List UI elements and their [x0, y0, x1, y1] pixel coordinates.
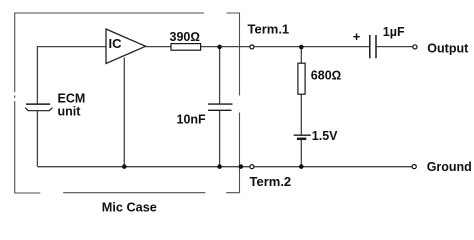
svg-text:unit: unit — [58, 105, 82, 119]
wire: top rail from ECM to IC input — [37, 47, 106, 104]
wire: 680 resistor top lead — [300, 47, 302, 63]
wire: 10nF bottom lead — [219, 110, 221, 166]
resistor 390Ω — [170, 30, 201, 50]
Term.2 case bracket — [226, 113, 239, 193]
node: junction 680Ω top — [299, 45, 304, 50]
capacitor 10nF — [177, 104, 233, 127]
capacitor C 1uF (electrolytic, + on left) — [353, 25, 405, 58]
terminal Ground — [412, 160, 472, 174]
wire: 1uF capacitor to Output terminal — [377, 46, 413, 48]
terminal Term.1 — [248, 21, 290, 49]
node: junction Term.2 bracket on rail — [239, 164, 244, 169]
wire: 680 resistor to battery — [300, 94, 302, 134]
svg-text:10nF: 10nF — [177, 113, 207, 127]
resistor 680Ω — [298, 63, 341, 94]
svg-text:Term.1: Term.1 — [248, 21, 290, 36]
op-amp IC U1 — [106, 29, 146, 64]
terminal Output — [413, 41, 469, 55]
node: junction battery bottom on rail — [299, 164, 304, 169]
ECM unit microphone element — [25, 92, 85, 119]
battery 1.5V — [294, 129, 339, 143]
node: junction 10nF bottom on rail — [217, 164, 222, 169]
wire: 10nF top lead — [219, 47, 221, 104]
svg-text:390Ω: 390Ω — [170, 30, 200, 44]
svg-text:IC: IC — [109, 36, 123, 51]
Term.1 case bracket — [227, 13, 240, 96]
wire: resistor to 1uF capacitor (through Term.1) — [201, 46, 370, 48]
svg-text:+: + — [353, 29, 361, 44]
svg-text:1.5V: 1.5V — [312, 129, 338, 143]
node: junction 390Ω/10nF — [217, 45, 222, 50]
terminal Term.2 — [250, 165, 292, 189]
svg-text:Mic Case: Mic Case — [102, 201, 157, 215]
svg-text:Term.2: Term.2 — [250, 174, 292, 189]
wire: ECM bottom to bottom rail — [36, 111, 38, 167]
wire: bottom rail (ground rail) — [37, 166, 412, 168]
wire: battery to bottom rail — [300, 140, 302, 167]
svg-text:Ground: Ground — [427, 160, 472, 174]
svg-text:680Ω: 680Ω — [311, 68, 341, 82]
svg-text:1µF: 1µF — [383, 25, 405, 39]
wire: IC output to 390 resistor — [146, 46, 171, 48]
mic case dashed outline (top + left dashes) — [15, 13, 206, 193]
node: junction IC ground on rail — [122, 164, 127, 169]
svg-text:ECM: ECM — [58, 92, 86, 106]
wire: IC ground lead — [123, 58, 125, 167]
svg-text:Output: Output — [427, 41, 469, 55]
